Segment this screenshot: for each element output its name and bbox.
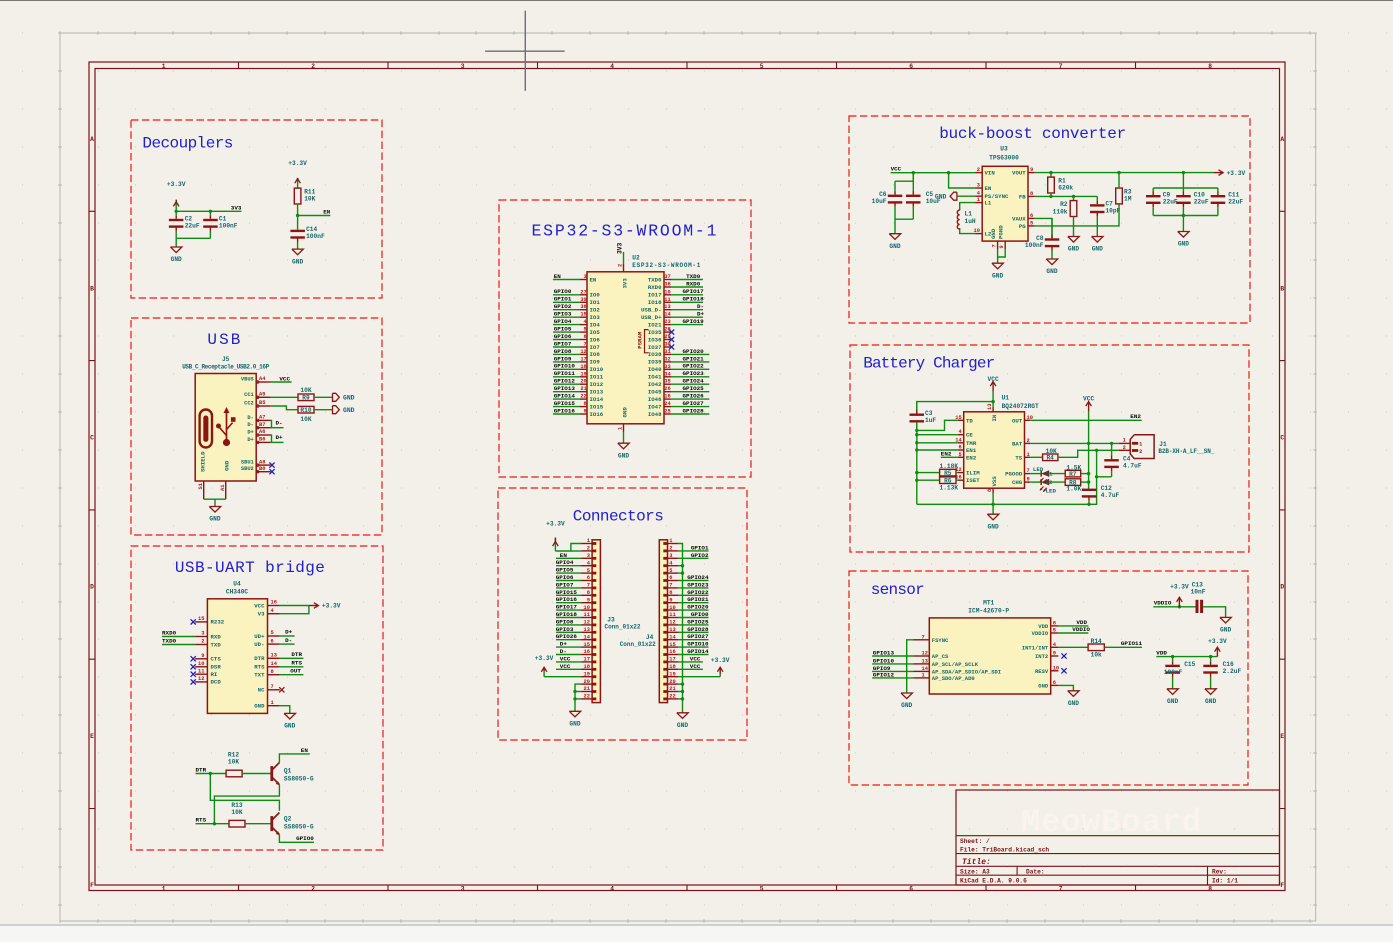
wire GPIO10 wire J4 xyxy=(678,646,709,648)
svg-text:C6: C6 xyxy=(879,191,887,198)
svg-text:GPIO12: GPIO12 xyxy=(873,671,895,678)
wire GPIO25 wire J4 xyxy=(678,624,709,626)
wire EN tie xyxy=(949,173,976,188)
svg-text:3: 3 xyxy=(584,274,587,280)
svg-text:RTS: RTS xyxy=(291,660,302,667)
wire C6 top xyxy=(895,173,913,182)
svg-text:GPIO10: GPIO10 xyxy=(554,363,576,370)
svg-text:6: 6 xyxy=(1030,213,1033,219)
svg-text:6: 6 xyxy=(669,575,672,581)
svg-text:GPIO21: GPIO21 xyxy=(683,355,705,362)
wire J4 pin22 stub xyxy=(678,698,683,700)
wire GPIO20 wire xyxy=(671,353,709,355)
wire GPIO27 wire xyxy=(671,406,709,408)
svg-text:GPIO13: GPIO13 xyxy=(873,649,895,656)
pin DCD (12) of U4 xyxy=(195,676,221,686)
svg-text:GND: GND xyxy=(677,722,688,729)
svg-text:GND: GND xyxy=(935,194,947,201)
wire R9 to GND label xyxy=(314,396,333,398)
svg-text:13: 13 xyxy=(271,653,277,659)
pin 19 of J3 xyxy=(581,671,596,678)
power +3.3V xyxy=(711,657,730,677)
pin GND (7) of U3 xyxy=(990,228,998,249)
pin 8 of J3 xyxy=(581,590,596,597)
pin IO6 (6) of U2 xyxy=(580,334,600,343)
svg-text:+3.3V: +3.3V xyxy=(167,181,186,188)
pin 8 of J4 xyxy=(663,590,678,597)
svg-text:EN2: EN2 xyxy=(966,454,977,461)
svg-text:1: 1 xyxy=(922,672,925,678)
svg-text:GPIO15: GPIO15 xyxy=(556,589,578,596)
pin V3 (4) of U4 xyxy=(258,608,280,618)
wire GPIO2 wire xyxy=(553,309,580,311)
svg-text:EN: EN xyxy=(323,208,331,215)
wire GPIO8 wire J3 xyxy=(556,624,581,626)
global label GND xyxy=(333,406,355,414)
svg-text:GPIO19: GPIO19 xyxy=(683,318,705,325)
resistor R5 xyxy=(940,463,959,477)
svg-text:EN: EN xyxy=(590,276,597,283)
wire OUT net xyxy=(280,674,304,676)
wire U4 GND xyxy=(280,706,290,714)
capacitor C12 xyxy=(1082,485,1120,504)
svg-text:1: 1 xyxy=(1123,438,1126,444)
svg-text:1: 1 xyxy=(1139,442,1142,448)
wire J4 pin20 stub xyxy=(678,683,683,685)
svg-text:GND: GND xyxy=(1038,682,1049,689)
power +3.3V xyxy=(167,181,186,211)
pin 11 of J4 xyxy=(663,612,678,619)
wire GPIO27 wire J4 xyxy=(678,639,709,641)
junction xyxy=(175,210,178,213)
svg-text:A: A xyxy=(1280,136,1284,143)
svg-text:EN: EN xyxy=(301,747,309,754)
svg-text:J3: J3 xyxy=(607,617,615,624)
svg-text:5: 5 xyxy=(958,452,961,458)
svg-text:5: 5 xyxy=(584,327,587,333)
svg-text:8: 8 xyxy=(1208,886,1212,893)
svg-text:9: 9 xyxy=(999,245,1005,248)
svg-text:4.7uF: 4.7uF xyxy=(1101,492,1120,499)
svg-text:IO4: IO4 xyxy=(590,321,601,328)
pin FSYNC (7) of MT1 xyxy=(914,634,950,644)
pin CHG (9) of U1 xyxy=(1012,477,1030,487)
svg-text:S1: S1 xyxy=(198,483,204,489)
svg-text:GPIO26: GPIO26 xyxy=(683,393,705,400)
svg-text:C12: C12 xyxy=(1101,485,1112,492)
junction xyxy=(1182,171,1185,174)
svg-text:GND: GND xyxy=(254,703,265,710)
svg-text:VIN: VIN xyxy=(985,170,996,177)
svg-text:SBU1: SBU1 xyxy=(241,460,254,466)
svg-text:10: 10 xyxy=(664,289,670,295)
svg-text:35: 35 xyxy=(664,379,670,385)
svg-text:OUT: OUT xyxy=(1012,417,1023,424)
junction xyxy=(1072,195,1075,198)
svg-text:10pF: 10pF xyxy=(1105,208,1120,215)
pin 22 of J4 xyxy=(663,694,678,701)
svg-text:AP_SDO/AP_AD0: AP_SDO/AP_AD0 xyxy=(932,675,975,682)
pin IO7 (7) of U2 xyxy=(580,342,600,351)
wire GPIO18 wire J3 xyxy=(556,617,581,619)
pin 6 of J4 xyxy=(663,575,678,582)
svg-text:GPIO3: GPIO3 xyxy=(554,311,572,318)
pin 4 of J3 xyxy=(581,560,596,567)
pin RESV (10) of MT1 xyxy=(1035,665,1059,675)
svg-text:D+: D+ xyxy=(247,437,253,443)
svg-text:GPIO6: GPIO6 xyxy=(554,333,572,340)
wire J4 gnd trunk xyxy=(678,544,683,713)
wire D+ wire xyxy=(671,316,703,318)
svg-text:IO5: IO5 xyxy=(590,329,601,336)
svg-text:IO8: IO8 xyxy=(590,351,601,358)
resistor R14 xyxy=(1088,638,1104,659)
svg-text:EN: EN xyxy=(985,185,992,192)
wire +3.3V to J3 pins 1-2 xyxy=(555,544,581,552)
wire GPIO1 wire J4 xyxy=(678,550,709,552)
no-connect xyxy=(269,469,274,474)
svg-text:GND: GND xyxy=(1068,700,1079,707)
svg-text:GPIO12: GPIO12 xyxy=(554,378,576,385)
pin IO40 (33) of U2 xyxy=(648,364,671,373)
resistor R6 xyxy=(940,477,959,492)
junction xyxy=(1087,503,1090,506)
IC MT1 body xyxy=(929,618,1050,694)
svg-text:15: 15 xyxy=(580,312,586,318)
svg-text:5: 5 xyxy=(1030,220,1033,226)
wire gnd drop xyxy=(1096,450,1098,504)
pin 18 of J3 xyxy=(581,664,596,671)
svg-text:GPIO18: GPIO18 xyxy=(683,296,705,303)
wire GPIO3 wire xyxy=(553,316,580,318)
junction xyxy=(1110,442,1113,445)
pin IO12 (20) of U2 xyxy=(580,379,604,388)
wire EN wire xyxy=(553,279,580,281)
svg-text:IO1: IO1 xyxy=(590,299,601,306)
junction xyxy=(681,690,684,693)
pin DSR (10) of U4 xyxy=(195,661,221,671)
pin AP_CS (12) of MT1 xyxy=(914,651,950,661)
svg-text:GPIO22: GPIO22 xyxy=(687,589,709,596)
svg-text:9: 9 xyxy=(201,653,204,659)
junction xyxy=(915,479,918,482)
wire L1 bottom xyxy=(960,228,976,234)
svg-text:GPIO17: GPIO17 xyxy=(683,288,705,295)
wire GPIO0 wire xyxy=(553,294,580,296)
pin 5 of J4 xyxy=(663,568,678,575)
wire CC2 to R10 xyxy=(271,406,298,410)
svg-text:VDD: VDD xyxy=(1156,650,1167,657)
svg-text:13: 13 xyxy=(664,304,670,310)
power VCC xyxy=(1083,396,1094,412)
svg-text:D-: D- xyxy=(560,648,567,655)
section box USB xyxy=(131,318,382,535)
svg-text:19: 19 xyxy=(580,371,586,377)
wire EN2 wire xyxy=(941,456,958,458)
svg-text:IO18: IO18 xyxy=(648,299,662,306)
pin IO1 (39) of U2 xyxy=(580,297,600,306)
wire J4 pin19 to +3.3V xyxy=(678,676,720,678)
svg-text:C2: C2 xyxy=(185,215,193,222)
pin FB (8) of U3 xyxy=(1019,191,1035,201)
pin RXD (3) of U4 xyxy=(195,631,221,641)
svg-text:8: 8 xyxy=(587,590,590,596)
svg-text:9: 9 xyxy=(1053,651,1056,657)
svg-text:20: 20 xyxy=(580,379,586,385)
transistor Q1 xyxy=(270,763,313,786)
svg-text:1uH: 1uH xyxy=(965,218,976,225)
pin TXD (2) of U4 xyxy=(195,639,221,649)
pin EN (3) of U3 xyxy=(976,183,992,193)
wire R5 right xyxy=(956,472,958,474)
svg-text:F: F xyxy=(1280,882,1284,889)
svg-text:D-: D- xyxy=(285,637,292,644)
svg-text:GND: GND xyxy=(618,452,629,459)
junction xyxy=(912,171,915,174)
wire Q2 emitter to GPIO0 xyxy=(279,835,314,843)
pin USB_D+ (14) of U2 xyxy=(641,312,672,321)
wire GPIO23 wire J4 xyxy=(678,587,709,589)
wire GPIO17 wire J3 xyxy=(556,609,581,611)
svg-text:18: 18 xyxy=(584,664,590,670)
svg-text:GND: GND xyxy=(889,243,900,250)
svg-text:12: 12 xyxy=(198,676,204,682)
svg-text:34: 34 xyxy=(664,371,671,377)
ground xyxy=(889,234,901,250)
svg-text:D: D xyxy=(1280,583,1284,590)
svg-text:E: E xyxy=(1280,733,1284,740)
pin NC (7) of U4 xyxy=(258,684,280,694)
svg-text:VSS: VSS xyxy=(991,476,998,487)
section box ESP32-S3-WROOM-1 xyxy=(499,200,751,477)
junction xyxy=(573,697,576,700)
svg-text:GPIO0: GPIO0 xyxy=(691,611,709,618)
svg-text:12: 12 xyxy=(580,349,586,355)
svg-text:3: 3 xyxy=(201,631,204,637)
svg-text:D-: D- xyxy=(697,303,704,310)
svg-text:VCC: VCC xyxy=(690,663,701,670)
pin PS/SYNC (4) of U3 xyxy=(976,191,1009,201)
wire TS to R4 xyxy=(1030,456,1042,458)
junction xyxy=(1095,475,1098,478)
svg-text:+3.3V: +3.3V xyxy=(288,160,307,167)
wire GPIO25 wire xyxy=(671,391,709,393)
svg-text:GND: GND xyxy=(224,460,231,471)
svg-text:IO42: IO42 xyxy=(648,381,662,388)
wire RTS out xyxy=(280,666,304,668)
svg-text:GPIO28: GPIO28 xyxy=(683,407,705,414)
svg-text:GPIO8: GPIO8 xyxy=(556,618,574,625)
svg-text:B7: B7 xyxy=(259,422,265,428)
junction xyxy=(1087,442,1090,445)
svg-text:11: 11 xyxy=(669,612,675,618)
svg-text:GND: GND xyxy=(1205,698,1216,705)
power VCC xyxy=(988,376,999,391)
pin IO36 (29) of U2 xyxy=(648,334,671,343)
svg-text:10K: 10K xyxy=(228,759,239,766)
svg-text:R13: R13 xyxy=(231,802,242,809)
pin 1 of J1 xyxy=(1119,438,1143,448)
wire RXD0 wire xyxy=(671,286,703,288)
ground xyxy=(292,249,304,265)
pin 15 of J3 xyxy=(581,642,596,649)
pin IO21 (23) of U2 xyxy=(648,319,671,328)
junction xyxy=(915,448,918,451)
wire GPIO3 wire J3 xyxy=(556,631,581,633)
wire left top rail xyxy=(917,402,993,414)
junction xyxy=(1087,472,1090,475)
svg-text:8: 8 xyxy=(669,590,672,596)
svg-text:VCC: VCC xyxy=(560,663,571,670)
pin 2 of J3 xyxy=(581,546,596,553)
pin IO2 (38) of U2 xyxy=(580,304,600,313)
ground xyxy=(677,713,689,729)
svg-text:TXD0: TXD0 xyxy=(686,273,701,280)
wire VBUS to VCC xyxy=(271,381,292,383)
pin L2 (10) of U3 xyxy=(974,228,992,238)
svg-text:A5: A5 xyxy=(259,392,265,398)
svg-text:Decouplers: Decouplers xyxy=(142,135,233,153)
ground xyxy=(1046,259,1058,275)
wire IN wire xyxy=(992,391,994,407)
svg-text:Conn_01x22: Conn_01x22 xyxy=(620,641,656,648)
junction xyxy=(573,690,576,693)
svg-text:2.2uF: 2.2uF xyxy=(1223,668,1242,675)
svg-text:UD+: UD+ xyxy=(254,633,265,640)
pin AP_SCL/AP_SCLK (13) of MT1 xyxy=(914,658,979,668)
svg-text:GPIO10: GPIO10 xyxy=(873,657,895,664)
wire C9-C11 bottom bus xyxy=(1153,215,1218,217)
pin L1 (1) of U3 xyxy=(976,197,992,207)
cursor crosshair xyxy=(485,11,564,91)
svg-text:GPIO4: GPIO4 xyxy=(554,318,572,325)
wire GPIO2 wire J4 xyxy=(678,557,709,559)
transistor Q2 xyxy=(270,813,313,836)
wire GPIO5 wire J3 xyxy=(556,572,581,574)
svg-text:D+: D+ xyxy=(560,641,568,648)
pin IO14 (22) of U2 xyxy=(580,394,604,403)
pin 1 of J3 xyxy=(581,538,596,545)
wire GPIO24 wire J4 xyxy=(678,580,709,582)
wire CHG to D2 xyxy=(1030,481,1041,483)
svg-text:GPIO1: GPIO1 xyxy=(691,544,709,551)
svg-text:20: 20 xyxy=(584,679,590,685)
svg-text:R6: R6 xyxy=(944,478,952,485)
wire GPIO18 wire xyxy=(671,301,703,303)
svg-text:V3: V3 xyxy=(258,611,265,618)
svg-text:10uF: 10uF xyxy=(872,198,887,205)
pin 9 of J4 xyxy=(663,597,678,604)
svg-text:TD: TD xyxy=(966,417,973,424)
wire CE tie xyxy=(917,434,958,436)
pin IO17 (10) of U2 xyxy=(648,289,671,298)
pin 19 of J4 xyxy=(663,671,678,678)
wire Q1 emitter cross xyxy=(214,785,279,824)
svg-text:RTS: RTS xyxy=(196,816,207,823)
svg-text:OUT: OUT xyxy=(290,667,301,674)
svg-text:+3.3V: +3.3V xyxy=(711,657,730,664)
pin IO13 (21) of U2 xyxy=(580,386,604,395)
svg-text:C1: C1 xyxy=(219,215,227,222)
resistor R10 xyxy=(298,406,314,423)
svg-text:TXD0: TXD0 xyxy=(648,276,662,283)
svg-text:C4: C4 xyxy=(1123,456,1131,463)
wire GPIO14 wire xyxy=(553,398,580,400)
junction xyxy=(915,441,918,444)
svg-text:6: 6 xyxy=(909,886,913,893)
wire left rail xyxy=(916,422,918,504)
wire BAT net xyxy=(1030,442,1119,444)
capacitor C1 xyxy=(203,211,238,238)
svg-text:C: C xyxy=(90,434,94,441)
svg-text:8: 8 xyxy=(271,669,274,675)
pin EN2 (5) of U1 xyxy=(958,452,977,462)
svg-text:21: 21 xyxy=(669,686,675,692)
pin VIN (2) of U3 xyxy=(976,167,996,177)
svg-text:VCC: VCC xyxy=(690,655,701,662)
global label GND xyxy=(333,393,355,401)
drawing frame outer xyxy=(89,62,1285,891)
svg-text:8: 8 xyxy=(1030,191,1033,197)
wire C10 rail drop xyxy=(1182,173,1184,188)
wire R3 top lead xyxy=(1118,173,1120,188)
svg-text:2: 2 xyxy=(1027,438,1030,444)
pin 20 of J3 xyxy=(581,679,596,686)
svg-text:B2B-XH-A_LF__SN_: B2B-XH-A_LF__SN_ xyxy=(1158,448,1214,455)
svg-text:L1: L1 xyxy=(985,200,992,207)
wire L1 top xyxy=(960,203,976,211)
svg-text:GPIO8: GPIO8 xyxy=(554,348,572,355)
svg-text:D-: D- xyxy=(276,419,283,426)
wire R1 bottom lead xyxy=(1050,193,1052,196)
svg-text:GND: GND xyxy=(1178,241,1189,248)
pin VCC (16) of U4 xyxy=(254,600,280,610)
svg-text:IO36: IO36 xyxy=(648,336,662,343)
wire VDD rail2 xyxy=(1156,656,1217,658)
wire GPIO10 wire xyxy=(553,368,580,370)
svg-text:13: 13 xyxy=(584,627,590,633)
svg-text:GPIO23: GPIO23 xyxy=(687,581,709,588)
svg-text:GPIO15: GPIO15 xyxy=(554,400,576,407)
svg-text:GND: GND xyxy=(284,723,295,730)
wire FSYNC gnd xyxy=(907,640,914,693)
svg-text:IO10: IO10 xyxy=(590,366,604,373)
svg-text:GPIO24: GPIO24 xyxy=(683,378,705,385)
capacitor C10 xyxy=(1176,188,1209,216)
pin EN (3) of U2 xyxy=(580,274,597,283)
pin 7 of J3 xyxy=(581,583,596,590)
capacitor C16 xyxy=(1203,657,1241,689)
wire GPIO14 wire J4 xyxy=(678,654,709,656)
svg-text:GND: GND xyxy=(988,523,999,530)
svg-text:GPIO1: GPIO1 xyxy=(554,296,572,303)
IC U1 body xyxy=(964,412,1025,488)
svg-text:IO6: IO6 xyxy=(590,336,601,343)
svg-text:GPIO5: GPIO5 xyxy=(556,567,574,574)
pin 18 of J4 xyxy=(663,664,678,671)
svg-text:GPIO24: GPIO24 xyxy=(687,574,709,581)
wire GPIO9 wire xyxy=(872,670,913,672)
svg-text:15: 15 xyxy=(669,642,675,648)
svg-text:EN2: EN2 xyxy=(1130,413,1141,420)
svg-text:DCD: DCD xyxy=(211,679,222,686)
svg-text:16: 16 xyxy=(664,394,670,400)
junction xyxy=(1182,214,1185,217)
pin D- (A7) of J5 xyxy=(247,415,270,422)
svg-text:ESP32-S3-WROOM-1: ESP32-S3-WROOM-1 xyxy=(532,222,717,241)
wire GPIO16 wire xyxy=(553,413,580,415)
pin UD+ (5) of U4 xyxy=(254,630,280,640)
